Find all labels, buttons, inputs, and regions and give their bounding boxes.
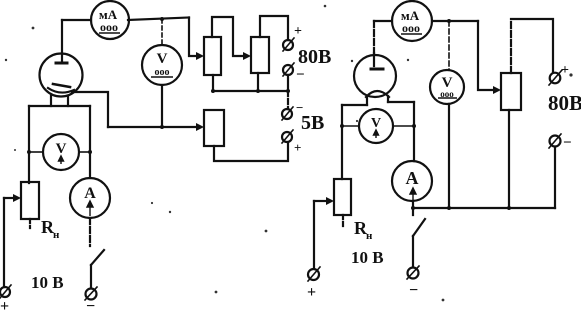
svg-text:+: + <box>561 63 569 78</box>
svg-text:−: − <box>296 67 305 83</box>
svg-text:+: + <box>0 298 9 312</box>
svg-text:+: + <box>307 284 316 301</box>
svg-text:10 В: 10 В <box>31 273 64 292</box>
svg-text:А: А <box>84 185 96 202</box>
svg-text:5В: 5В <box>301 112 324 134</box>
svg-text:−: − <box>86 298 95 312</box>
svg-text:80В: 80В <box>298 46 331 68</box>
svg-text:+: + <box>294 24 302 39</box>
svg-text:−: − <box>409 282 418 299</box>
svg-text:А: А <box>406 168 419 188</box>
svg-text:V: V <box>157 51 168 67</box>
svg-text:ооо: ооо <box>402 21 420 35</box>
svg-text:−: − <box>563 135 572 151</box>
svg-text:ооо: ооо <box>100 20 118 34</box>
svg-text:н: н <box>366 230 373 242</box>
svg-text:10 В: 10 В <box>351 248 384 267</box>
svg-text:80В: 80В <box>548 91 581 115</box>
svg-text:н: н <box>53 229 60 241</box>
svg-text:+: + <box>294 140 301 155</box>
